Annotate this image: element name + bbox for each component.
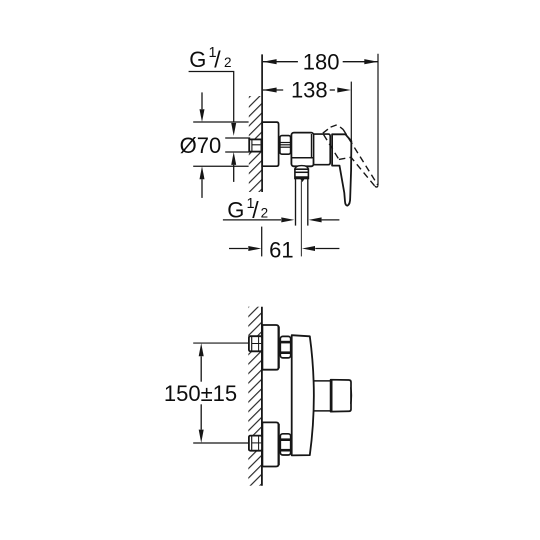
handle stem (top view) bbox=[313, 380, 330, 382]
cold S-union nut (top view) bbox=[280, 434, 290, 455]
knob end-face arc bbox=[350, 387, 353, 404]
svg-text:150±15: 150±15 bbox=[164, 381, 237, 406]
dimension 138 lines and arrows bbox=[263, 89, 283, 91]
mixer body (side view) bbox=[291, 133, 313, 167]
wall hatching (side view) bbox=[249, 96, 262, 192]
wall section line (top view) bbox=[261, 307, 263, 486]
cold supply wall nut (top view) bbox=[249, 436, 262, 451]
mixer body (top view) bbox=[292, 335, 314, 455]
outlet thread lines bbox=[295, 179, 297, 226]
svg-text:/: / bbox=[214, 47, 221, 73]
cartridge ring (side view) bbox=[314, 134, 331, 165]
dimension text 150±15 (with mask) bbox=[165, 384, 236, 403]
wall extension line for 61 bbox=[261, 227, 263, 257]
outlet cone (side view) bbox=[295, 166, 309, 170]
cold escutcheon flange (top view) bbox=[262, 422, 278, 466]
svg-text:2: 2 bbox=[261, 206, 269, 221]
S-union hex nut (side view) bbox=[280, 136, 291, 155]
supply thread extension lines (side view) bbox=[225, 137, 250, 139]
shower outlet union nut (side view) bbox=[295, 169, 309, 178]
escutcheon flange (side view) bbox=[262, 122, 278, 166]
dimension 61 lines and arrows bbox=[229, 248, 248, 250]
flange right edge emphasis lines (top view) bbox=[278, 327, 280, 369]
svg-text:61: 61 bbox=[269, 237, 293, 262]
extension line for 180 bbox=[377, 54, 379, 186]
svg-text:2: 2 bbox=[224, 55, 232, 70]
hot supply wall nut (top view) bbox=[249, 336, 262, 351]
flange diameter extension lines bbox=[193, 121, 248, 123]
knob mounting face bold edge bbox=[330, 380, 332, 411]
leader line G1/2 outlet + arrow bbox=[223, 219, 281, 221]
handle knob (top view) bbox=[331, 380, 351, 412]
hot escutcheon flange (top view) bbox=[262, 325, 278, 370]
outlet seal wedge bbox=[300, 179, 304, 182]
wall supply nipple nut (side view) bbox=[249, 139, 261, 151]
handle lever raised position (dashed) bbox=[323, 125, 378, 187]
hot S-union nut (top view) bbox=[280, 336, 290, 358]
leader line G1/2 wall supply bbox=[189, 72, 234, 123]
dimension 150±15 line and arrows bbox=[200, 356, 202, 381]
extension line for 138 bbox=[350, 82, 352, 142]
svg-text:G: G bbox=[227, 198, 244, 223]
cold supply pipe centerline bbox=[193, 442, 249, 444]
nipple thread dimension arrow (inner lower) bbox=[233, 165, 235, 182]
svg-text:/: / bbox=[252, 197, 259, 223]
wall section line (side view) bbox=[261, 54, 263, 192]
outlet thread right arrow bbox=[322, 219, 340, 221]
flange diameter dimension arrows (outer) bbox=[201, 92, 203, 109]
outlet centerline bbox=[300, 181, 302, 257]
dimension 180 lines and arrows bbox=[263, 61, 298, 63]
wall hatching (top view) bbox=[248, 307, 262, 486]
hot supply pipe centerline bbox=[193, 342, 249, 344]
svg-text:G: G bbox=[189, 47, 206, 72]
svg-text:138: 138 bbox=[291, 78, 328, 103]
svg-text:180: 180 bbox=[303, 50, 340, 75]
svg-text:Ø70: Ø70 bbox=[180, 133, 222, 158]
handle with lever (side view) bbox=[332, 134, 351, 205]
